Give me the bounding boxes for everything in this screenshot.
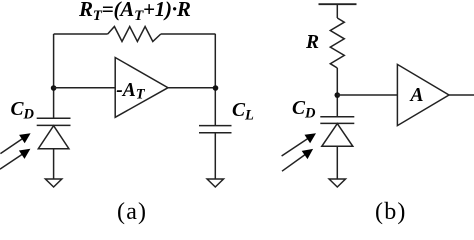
light arrow 1 (a) (0, 133, 30, 153)
wire amplifier input (b) (337, 94, 397, 96)
photodiode CD diode triangle (b) (322, 124, 353, 147)
svg-text:CL: CL (232, 100, 254, 124)
node junction dot (b) (335, 92, 341, 98)
wire diode to ground (a) (53, 149, 55, 179)
wire capacitor to ground (a) (214, 133, 216, 179)
light arrow 1 (b) (282, 133, 316, 156)
op-amp U2 A triangle (397, 64, 449, 125)
wire top-right horizontal (a) (161, 33, 216, 35)
svg-text:A: A (409, 85, 424, 106)
wire diode to ground (b) (336, 146, 338, 179)
wire amplifier output (b) (449, 94, 474, 96)
ground (a left) (45, 179, 61, 187)
photodiode CD capacitor plates (b) (320, 117, 354, 124)
power rail (b) (319, 3, 357, 5)
resistor R zigzag (b) (330, 18, 344, 68)
svg-text:(a): (a) (117, 199, 147, 225)
op-amp U1 -AT triangle (115, 58, 168, 118)
ground (b) (329, 179, 345, 187)
capacitor CL plates (199, 126, 232, 133)
svg-text:CD: CD (11, 99, 35, 123)
wire rail to resistor (b) (336, 4, 338, 18)
wire top-left horizontal (a) (54, 33, 108, 35)
photodiode CD diode triangle (a) (38, 126, 69, 149)
ground (a right) (207, 179, 223, 187)
svg-text:R: R (305, 32, 319, 53)
light arrow 2 (a) (0, 149, 30, 169)
node output junction dot (a) (213, 85, 219, 91)
wire resistor to node (b) (336, 68, 338, 117)
photodiode CD capacitor plates (a) (37, 118, 71, 125)
svg-text:CD: CD (292, 98, 316, 122)
wire right vertical (a) (214, 34, 216, 126)
node input junction dot (a) (51, 85, 57, 91)
wire amplifier input (a) (54, 87, 116, 89)
wire left vertical (a) (53, 34, 55, 118)
svg-text:RT=(AT+1)·R: RT=(AT+1)·R (78, 0, 191, 24)
light arrow 2 (b) (282, 149, 313, 171)
resistor RT zigzag (108, 27, 161, 42)
svg-text:(b): (b) (375, 199, 407, 225)
wire amplifier output (a) (168, 87, 216, 89)
